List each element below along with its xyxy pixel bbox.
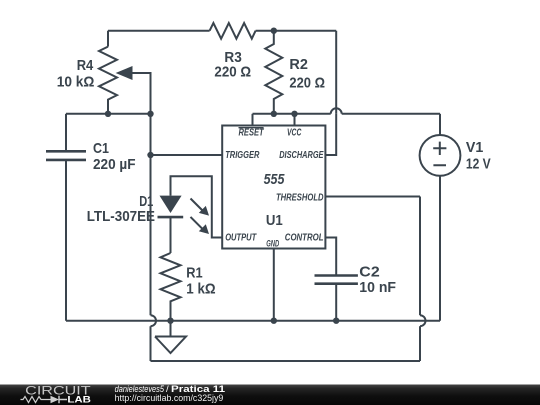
wire TRIGGER pin — [151, 154, 223, 156]
LED D1 cathode bar — [158, 216, 184, 219]
wire V1 top lead — [439, 114, 441, 135]
capacitor C2 — [315, 276, 358, 284]
node VCC junction — [291, 111, 297, 117]
svg-text:220 Ω: 220 Ω — [214, 64, 251, 81]
svg-text:U1: U1 — [266, 212, 283, 229]
footer bar — [0, 385, 540, 405]
svg-text:OUTPUT: OUTPUT — [225, 233, 257, 244]
LED D1 light arrow 1 — [191, 199, 204, 212]
wire trigger net vertical x=150.5 — [150, 114, 152, 315]
svg-text:DISCHARGE: DISCHARGE — [279, 150, 324, 161]
node trigger junction — [147, 152, 153, 158]
node R1/ground junction — [167, 318, 173, 324]
node R4 bottom junction — [105, 111, 111, 117]
resistor R3 — [210, 23, 256, 39]
resistor R1 — [161, 253, 181, 321]
svg-text:TRIGGER: TRIGGER — [225, 150, 260, 161]
node wiper junction — [147, 111, 153, 117]
svg-text:LTL-307EE: LTL-307EE — [87, 208, 155, 225]
svg-text:LAB: LAB — [67, 394, 91, 405]
wire OUTPUT pin to LED anode — [171, 176, 223, 237]
wire top rail left segment — [108, 30, 210, 32]
wire THRESHOLD pin — [325, 196, 420, 198]
capacitor C1 — [46, 151, 86, 160]
wire CONTROL pin to C2 — [325, 238, 336, 276]
wire hop over ground rail at x=150.5 — [151, 315, 157, 361]
wire top rail right segment — [256, 30, 337, 32]
svg-text:R1: R1 — [186, 264, 202, 281]
svg-text:R4: R4 — [77, 57, 94, 74]
svg-text:V1: V1 — [466, 139, 483, 156]
wire RESET pin drop — [252, 114, 254, 126]
resistor R2 — [265, 31, 282, 114]
svg-text:220 µF: 220 µF — [93, 156, 136, 173]
wire left rail y=113.8 — [66, 113, 151, 115]
wire GND pin stub — [273, 249, 275, 321]
logo diode symbol — [51, 396, 60, 403]
wire VCC pin drop — [294, 114, 296, 126]
svg-text:R2: R2 — [289, 56, 308, 73]
svg-text:CONTROL: CONTROL — [285, 233, 324, 244]
svg-text:10 kΩ: 10 kΩ — [57, 74, 95, 91]
resistor R4 potentiometer body — [99, 47, 117, 114]
wire C1 top lead — [65, 114, 67, 152]
wire C2 bottom lead — [335, 284, 337, 321]
wire LED cathode to R1 — [170, 217, 172, 253]
svg-text:http://circuitlab.com/c325jy9: http://circuitlab.com/c325jy9 — [115, 393, 224, 404]
voltage source V1 — [420, 135, 461, 176]
node C2 junction — [333, 318, 339, 324]
potentiometer R4 wiper arrow — [122, 73, 151, 114]
svg-text:C1: C1 — [93, 140, 109, 157]
wire discharge to DISCHARGE pin — [325, 114, 336, 155]
node R2 bottom junction — [271, 111, 277, 117]
wire discharge net vertical x=336.2 with corner at top rail — [335, 31, 337, 114]
wire C1 bottom lead — [65, 160, 67, 321]
wire bottom link y=361 trigger-threshold — [151, 360, 421, 362]
wire R4 top lead — [107, 31, 109, 47]
LED D1 light arrow 2 — [191, 217, 204, 230]
node top R3/R2 junction — [271, 28, 277, 34]
wire threshold net vertical x=420 — [419, 326, 421, 361]
LED D1 triangle — [160, 196, 182, 213]
svg-text:THRESHOLD: THRESHOLD — [276, 192, 324, 203]
svg-text:12 V: 12 V — [466, 156, 491, 173]
svg-text:220 Ω: 220 Ω — [289, 74, 325, 91]
wire hop over ground rail at x=420 — [420, 197, 426, 327]
ground symbol — [155, 321, 186, 353]
svg-text:VCC: VCC — [287, 127, 302, 138]
svg-text:1 kΩ: 1 kΩ — [186, 281, 215, 298]
svg-text:RESET: RESET — [239, 127, 265, 138]
wire vcc rail y=113.8 with hop over discharge vertical — [253, 108, 441, 114]
op-amp U1 555 timer box — [222, 126, 325, 249]
wire ground rail y=320.7 — [66, 320, 440, 322]
logo resistor squiggle — [21, 397, 51, 403]
svg-text:GND: GND — [266, 238, 279, 248]
svg-text:555: 555 — [264, 171, 285, 188]
svg-text:10 nF: 10 nF — [359, 279, 396, 296]
node GND pin junction — [271, 318, 277, 324]
wire V1 bottom lead — [439, 176, 441, 321]
